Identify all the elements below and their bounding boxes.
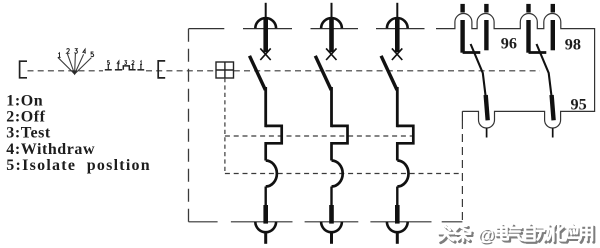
svg-text:96: 96 xyxy=(501,35,517,53)
svg-text:@: @ xyxy=(478,225,495,245)
svg-text:98: 98 xyxy=(565,36,581,54)
svg-text:4:Withdraw: 4:Withdraw xyxy=(6,141,95,158)
svg-text:3:Test: 3:Test xyxy=(6,125,51,142)
svg-text:95: 95 xyxy=(571,96,587,114)
svg-text:5:Isolate posltion: 5:Isolate posltion xyxy=(6,157,151,174)
svg-text:2:Off: 2:Off xyxy=(6,109,45,126)
svg-text:1:On: 1:On xyxy=(6,92,43,109)
